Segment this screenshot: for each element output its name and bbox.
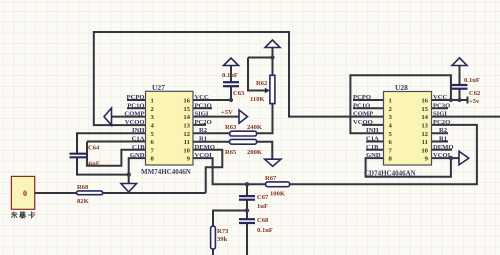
svg-text:C1B: C1B — [366, 144, 379, 151]
svg-text:1: 1 — [389, 98, 392, 105]
svg-text:R62: R62 — [256, 80, 268, 87]
svg-text:1uF: 1uF — [257, 203, 268, 210]
svg-text:C63: C63 — [233, 90, 245, 97]
svg-text:R1: R1 — [199, 136, 207, 143]
svg-text:U28: U28 — [395, 83, 408, 92]
svg-text:VCOO: VCOO — [125, 119, 145, 126]
svg-text:SIGI: SIGI — [195, 111, 209, 118]
svg-text:MM74HC4046N: MM74HC4046N — [141, 168, 191, 176]
svg-text:PC2O: PC2O — [195, 119, 212, 126]
svg-text:R2: R2 — [199, 127, 208, 134]
svg-text:DEMO: DEMO — [433, 144, 454, 151]
svg-text:U27: U27 — [152, 83, 165, 92]
svg-text:39k: 39k — [217, 236, 228, 243]
svg-text:R1: R1 — [439, 136, 447, 143]
svg-text:10: 10 — [183, 147, 190, 154]
svg-text:1: 1 — [151, 98, 154, 105]
svg-text:C67: C67 — [257, 194, 269, 201]
svg-text:0.1uF: 0.1uF — [464, 77, 480, 84]
svg-text:10: 10 — [421, 147, 428, 154]
svg-text:C1A: C1A — [366, 136, 379, 143]
svg-text:100K: 100K — [270, 191, 286, 198]
svg-text:GND: GND — [366, 152, 381, 159]
svg-text:200K: 200K — [247, 149, 263, 156]
svg-text:C68: C68 — [257, 217, 269, 224]
svg-text:R63: R63 — [225, 124, 237, 131]
svg-text:PCPO: PCPO — [353, 94, 371, 101]
svg-text:COMP: COMP — [124, 111, 144, 118]
svg-text:C62: C62 — [469, 90, 481, 97]
svg-text:110K: 110K — [250, 96, 266, 103]
svg-text:0: 0 — [23, 189, 27, 198]
svg-text:12: 12 — [183, 131, 190, 138]
svg-text:15: 15 — [421, 106, 428, 113]
svg-text:VCOI: VCOI — [433, 152, 451, 159]
svg-text:0.1uF: 0.1uF — [222, 72, 238, 79]
svg-text:COMP: COMP — [353, 111, 373, 118]
svg-text:CD74HC4046AN: CD74HC4046AN — [364, 170, 416, 178]
svg-text:VCC: VCC — [195, 94, 210, 101]
svg-text:GND: GND — [130, 152, 145, 159]
svg-text:PC1O: PC1O — [127, 102, 144, 109]
svg-text:240K: 240K — [247, 124, 263, 131]
svg-text:+5V: +5V — [221, 109, 233, 116]
svg-text:0.1uF: 0.1uF — [257, 227, 273, 234]
svg-text:R65: R65 — [225, 149, 237, 156]
svg-text:PC3O: PC3O — [433, 102, 450, 109]
svg-text:C1B: C1B — [132, 144, 145, 151]
svg-text:16: 16 — [183, 98, 190, 105]
svg-text:PC1O: PC1O — [353, 102, 370, 109]
svg-text:SIGI: SIGI — [433, 111, 447, 118]
svg-text:11: 11 — [422, 139, 428, 146]
svg-text:+5v: +5v — [469, 98, 480, 105]
svg-text:R2: R2 — [439, 127, 448, 134]
svg-text:C1A: C1A — [132, 136, 145, 143]
svg-text:VCOO: VCOO — [353, 119, 373, 126]
svg-text:16: 16 — [421, 98, 428, 105]
svg-text:R68: R68 — [77, 184, 89, 191]
svg-text:13: 13 — [421, 123, 428, 130]
svg-text:56nF: 56nF — [86, 160, 100, 167]
svg-text:12: 12 — [421, 131, 428, 138]
svg-text:14: 14 — [421, 114, 428, 121]
svg-text:14: 14 — [183, 114, 190, 121]
svg-text:13: 13 — [183, 123, 190, 130]
svg-text:R67: R67 — [265, 175, 277, 182]
svg-text:15: 15 — [183, 106, 190, 113]
svg-text:C64: C64 — [88, 145, 100, 152]
svg-text:INH: INH — [366, 127, 379, 134]
svg-text:VCC: VCC — [433, 94, 448, 101]
svg-text:82K: 82K — [77, 198, 90, 205]
svg-text:DEMO: DEMO — [195, 144, 216, 151]
svg-text:PC3O: PC3O — [195, 102, 212, 109]
svg-text:PCPO: PCPO — [127, 94, 145, 101]
svg-text:VCOI: VCOI — [195, 152, 213, 159]
svg-text:PC2O: PC2O — [433, 119, 450, 126]
svg-text:R73: R73 — [217, 228, 229, 235]
svg-text:INH: INH — [132, 127, 145, 134]
svg-text:11: 11 — [184, 139, 190, 146]
